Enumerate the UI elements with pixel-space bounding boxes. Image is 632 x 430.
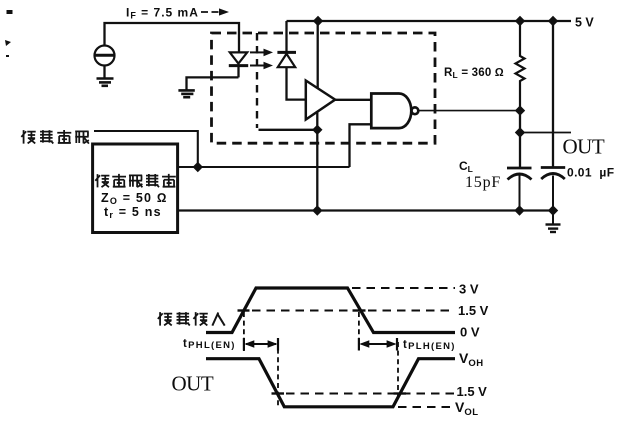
- vertical dashed at t2: [277, 340, 279, 406]
- wire LED cathode to ground: [187, 77, 239, 89]
- tick out falling crossing: [272, 392, 285, 394]
- enable input label (CJK): [158, 312, 225, 326]
- svg-text:0.01 µF: 0.01 µF: [567, 166, 614, 180]
- bypass cap rail wire: [552, 21, 554, 167]
- pulse generator title (CJK): [95, 174, 175, 187]
- label IF = 7.5 mA: [126, 6, 199, 21]
- svg-text:3 V: 3 V: [459, 282, 479, 297]
- node dot gnd/amp: [312, 205, 322, 215]
- 5V top rail: [287, 20, 572, 22]
- wire current source to LED: [105, 23, 240, 52]
- wire OUT node to CL: [519, 133, 521, 168]
- OUT stub wire: [520, 132, 571, 134]
- svg-text:0 V: 0 V: [460, 325, 480, 340]
- svg-text:OUT: OUT: [563, 135, 605, 159]
- scan speck top-left: [5, 10, 13, 57]
- arrow on IF label: [201, 8, 229, 15]
- node dot gnd/bypass: [548, 205, 558, 215]
- node dot rail/RL: [515, 16, 525, 26]
- photodiode D2: [277, 21, 305, 100]
- LED D1: [229, 52, 248, 77]
- enable monitor wire: [94, 131, 198, 167]
- 1.5V dashed level (out): [286, 393, 455, 395]
- svg-text:5 V: 5 V: [575, 16, 594, 30]
- capacitor 0.01uF: [541, 168, 565, 211]
- internal shield dashed line: [256, 33, 258, 128]
- amp gnd wire: [316, 112, 318, 211]
- wire current source to ground: [103, 66, 105, 79]
- vertical dashed at t4: [397, 342, 399, 399]
- 3V dashed level: [352, 287, 455, 289]
- pulse generator box: [93, 144, 178, 233]
- node dot OUT: [515, 127, 525, 137]
- node dot enable tap: [193, 162, 203, 172]
- tick out rising crossing: [394, 392, 407, 394]
- enable wire pulse gen to NAND: [178, 166, 350, 168]
- light emission arrows: [250, 49, 273, 70]
- tPHL measure arrow: [244, 338, 278, 351]
- node dot gnd/CL: [514, 205, 524, 215]
- ground G3: [546, 211, 561, 233]
- tick input rising crossing: [238, 309, 250, 311]
- NAND gate U1b: [371, 94, 418, 129]
- ground bus wire: [178, 209, 553, 211]
- svg-text:tPLH(EN): tPLH(EN): [403, 339, 456, 352]
- svg-text:1.5 V: 1.5 V: [458, 303, 489, 318]
- svg-text:1.5 V: 1.5 V: [457, 384, 488, 399]
- svg-text:tPHL(EN): tPHL(EN): [183, 338, 236, 351]
- resistor RL: [516, 21, 525, 111]
- amp output wire: [335, 99, 371, 101]
- NAND output wire: [419, 110, 520, 112]
- shield-to-gnd wire: [259, 129, 318, 131]
- tick input falling crossing: [353, 309, 366, 311]
- svg-text:15pF: 15pF: [465, 174, 501, 191]
- svg-text:IF = 7.5 mA: IF = 7.5 mA: [126, 6, 199, 21]
- amplifier U1a: [306, 81, 335, 120]
- svg-text:OUT: OUT: [172, 372, 214, 396]
- VOL dashed level: [398, 406, 453, 408]
- NAND enable input wire: [350, 124, 372, 167]
- vertical dashed at t3: [358, 312, 360, 349]
- current source I1: [94, 46, 116, 66]
- OUT waveform: [206, 359, 455, 407]
- ground G2: [178, 90, 194, 97]
- tPLH measure arrow: [359, 338, 397, 351]
- node dot shield/gnd: [312, 125, 322, 135]
- optocoupler dashed package box U1: [212, 33, 436, 143]
- node dot NAND out / RL: [515, 105, 525, 115]
- node dot rail/amp vcc: [313, 16, 323, 26]
- 1.5V dashed level (input): [252, 310, 455, 312]
- wire RL node to OUT node: [519, 111, 521, 133]
- enable input waveform: [206, 288, 455, 333]
- node dot rail/bypass cap: [548, 16, 558, 26]
- vertical dashed at t1: [243, 312, 245, 351]
- ground G1: [97, 79, 114, 86]
- enable monitor label (CJK): [21, 130, 89, 144]
- amp vcc wire: [317, 21, 319, 88]
- capacitor CL: [507, 168, 532, 211]
